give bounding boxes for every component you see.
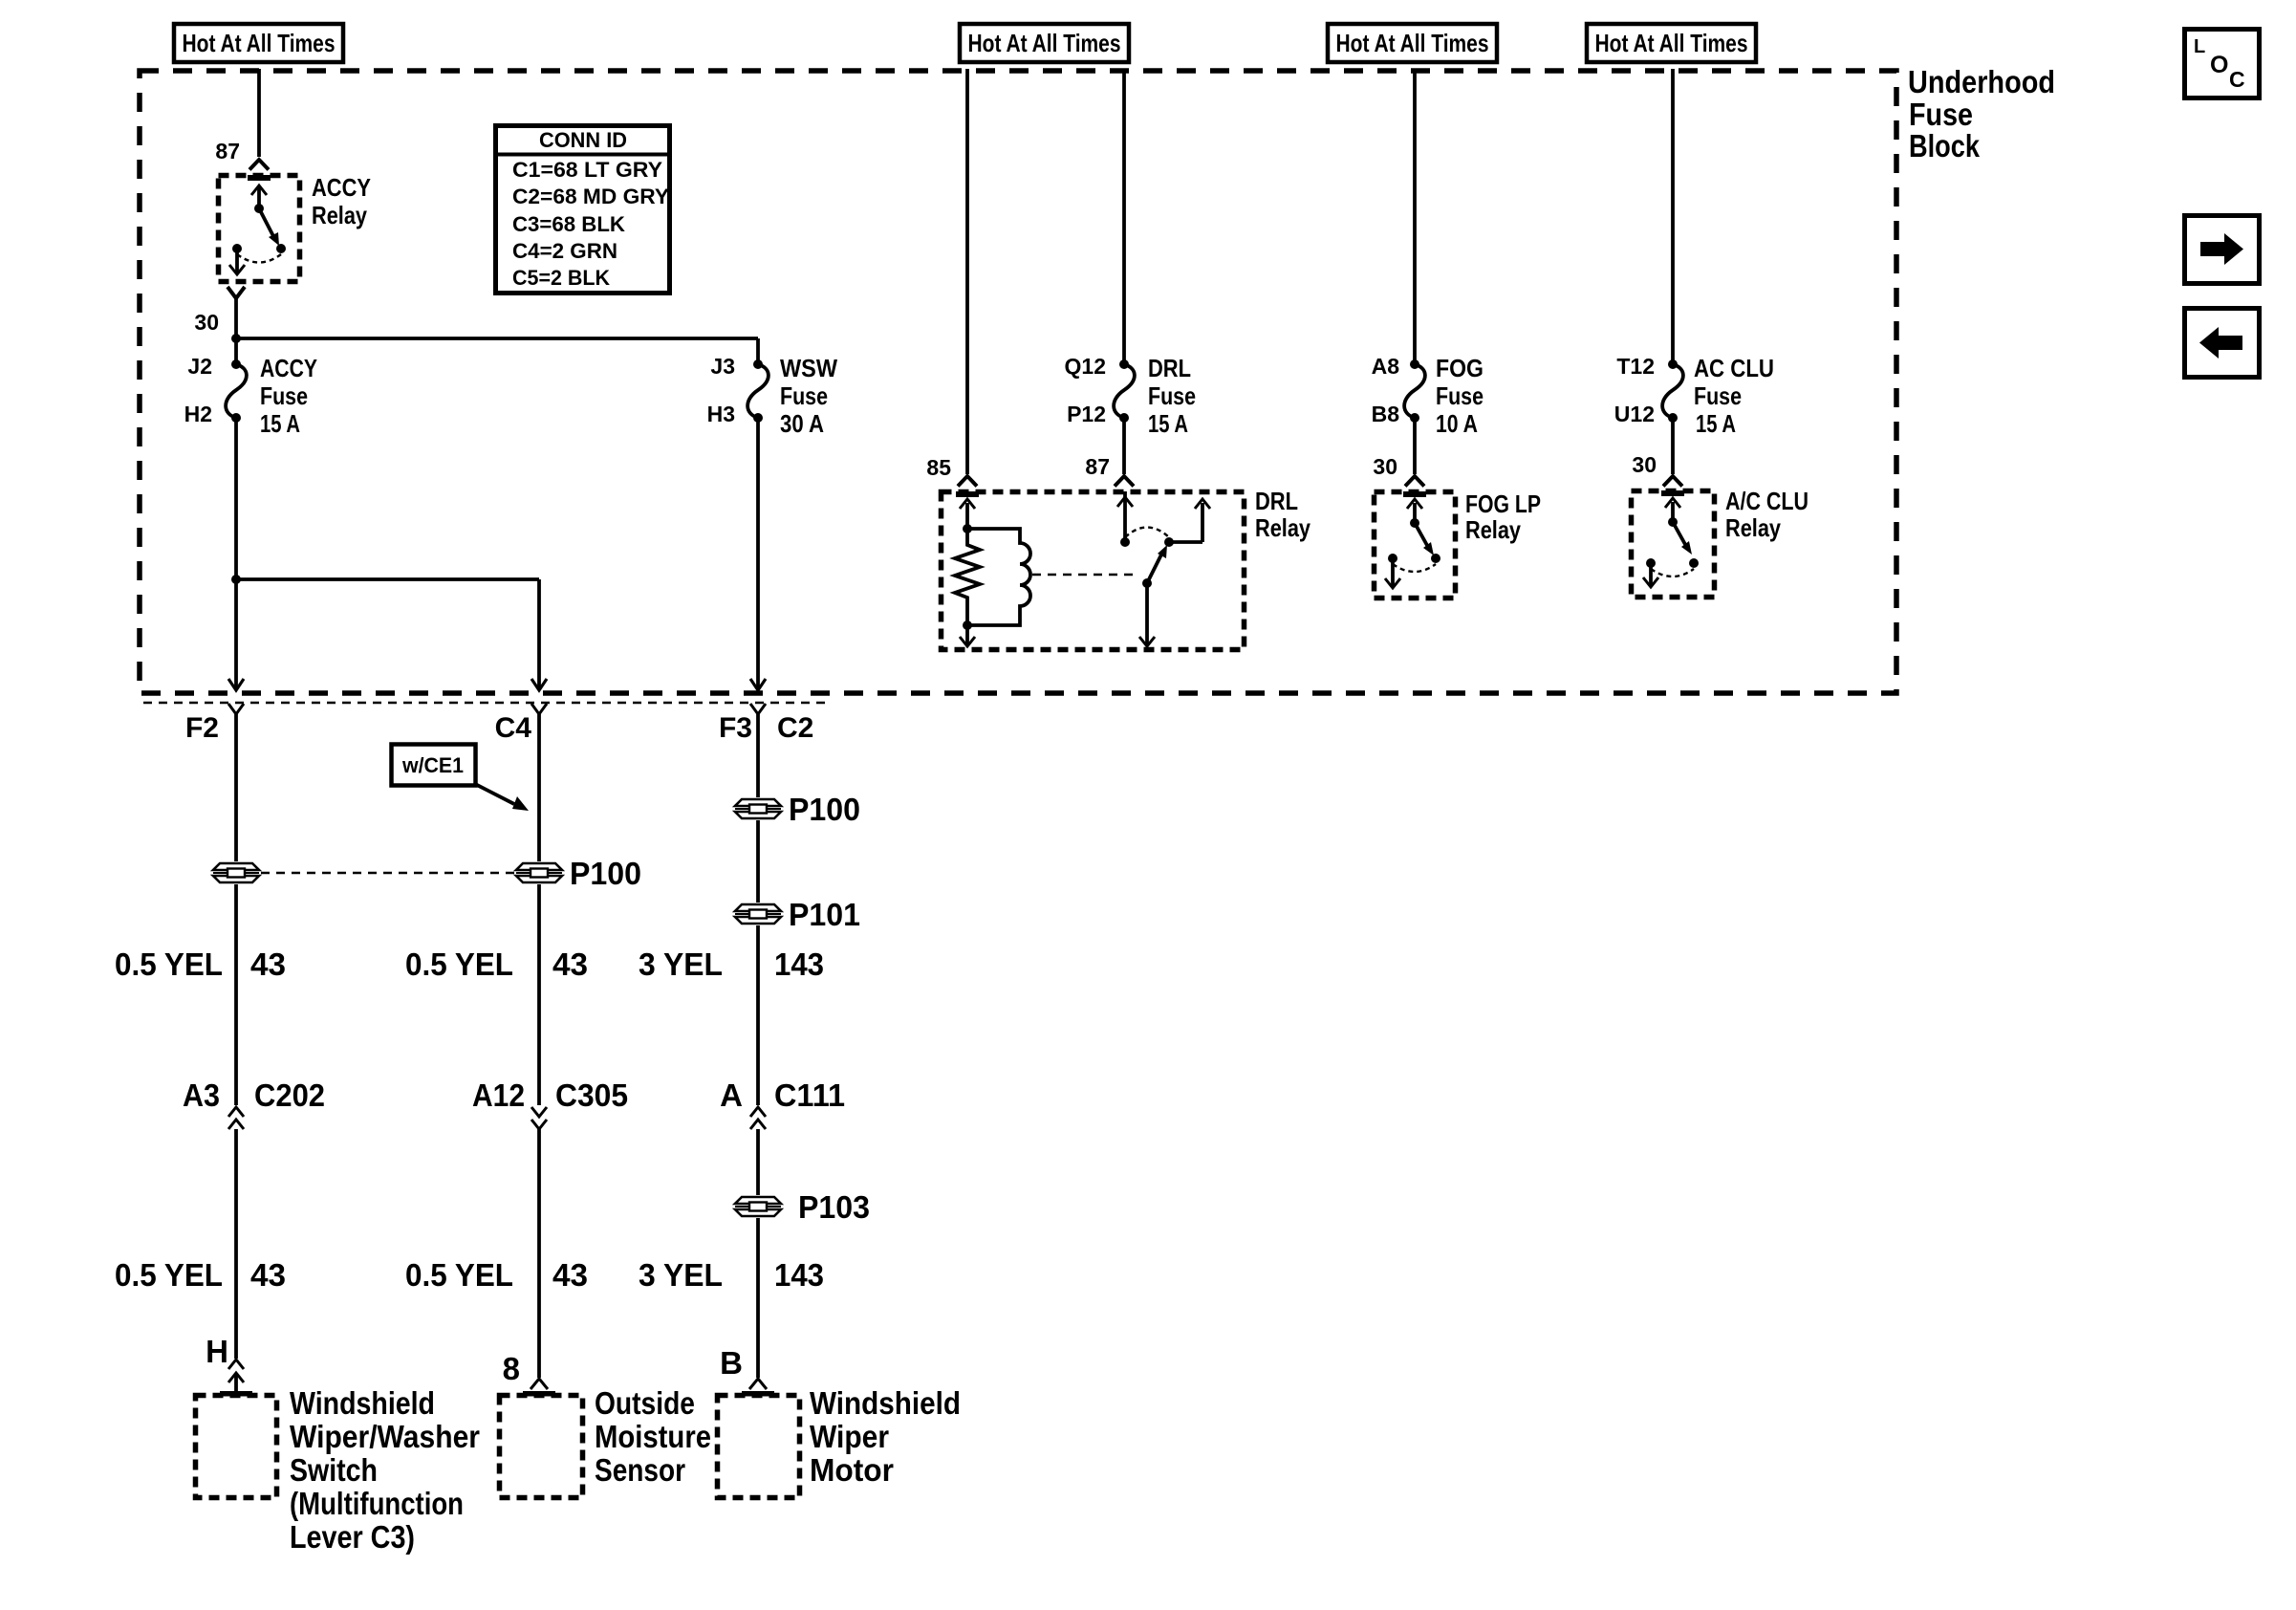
A/C CLU relay output contact and arrow (down) (1643, 558, 1658, 587)
in-line connector C202 (double chevron up) (228, 1107, 244, 1129)
svg-text:C3=68 BLK: C3=68 BLK (512, 212, 625, 236)
power label box: Hot At All Times (DRL feed) (960, 24, 1129, 62)
svg-text:30: 30 (1373, 454, 1397, 479)
svg-text:H2: H2 (184, 402, 212, 426)
A/C CLU relay pin 30 terminal bar (1661, 490, 1684, 496)
DRL Relay name label (1255, 487, 1310, 542)
A/C CLU Relay name label (1725, 487, 1809, 542)
pin label 30 (FOG) (1373, 454, 1397, 479)
relay ACCY dashed box (219, 176, 300, 282)
power label box: Hot At All Times (FOG feed) (1328, 24, 1497, 62)
arrowhead at F3 (750, 679, 766, 690)
windshield wiper/washer switch terminal bar (220, 1391, 252, 1397)
wire Hot At All Times to FOG fuse A8 (1413, 69, 1417, 364)
A/C CLU relay common arrow (up) (1665, 498, 1680, 527)
relay FOG LP dashed box (1375, 492, 1456, 598)
svg-text:B: B (720, 1345, 743, 1381)
svg-text:C4: C4 (495, 712, 532, 744)
svg-text:143: 143 (774, 946, 824, 982)
FOG LP relay contact dashed arc (1393, 564, 1436, 572)
svg-text:Fuse: Fuse (1436, 381, 1484, 410)
svg-text:10 A: 10 A (1436, 409, 1478, 438)
pin 85 chevron (958, 476, 977, 487)
Underhood Fuse Block dashed border (140, 71, 1896, 693)
svg-text:15 A: 15 A (1696, 409, 1736, 438)
svg-text:Windshield: Windshield (290, 1385, 435, 1421)
pin label P12 (1067, 402, 1106, 426)
pin label 87 (DRL) (1085, 454, 1110, 479)
svg-text:A/C CLU: A/C CLU (1725, 487, 1809, 515)
fuse AC CLU 15 A (T12/U12) (1662, 359, 1683, 423)
dashed tie P100 to P100 (261, 872, 514, 875)
pin label B8 (1372, 402, 1400, 426)
svg-text:Hot At All Times: Hot At All Times (183, 29, 336, 57)
FOG Fuse 10 A label (1436, 354, 1484, 438)
pin label J3 (710, 354, 735, 379)
ACCY relay contact dashed arc (237, 254, 281, 263)
pin label 87 (215, 139, 240, 163)
pin label 30 (194, 310, 219, 335)
pin label H3 (707, 402, 735, 426)
label F3 (719, 712, 752, 744)
svg-text:30 A: 30 A (780, 409, 824, 438)
pin 87 chevron (DRL) (1115, 476, 1134, 487)
DRL relay coil output arrow (down) (960, 620, 975, 646)
wire label 0.5 YEL 43 (upper left) (115, 946, 286, 982)
pass-through grommet P100 (right) (735, 799, 781, 818)
ACCY Fuse 15 A label (260, 354, 317, 438)
svg-text:Windshield: Windshield (810, 1385, 961, 1421)
power label box: Hot At All Times (AC CLU feed) (1587, 24, 1756, 62)
svg-text:H3: H3 (707, 402, 735, 426)
pin 8 connector chevron (531, 1379, 548, 1389)
node: junction of pin30 wire and WSW feed (231, 334, 241, 343)
svg-text:C1=68 LT GRY: C1=68 LT GRY (512, 158, 662, 182)
svg-text:Fuse: Fuse (260, 381, 308, 410)
relay A/C CLU dashed box (1632, 491, 1715, 598)
windshield wiper motor terminal bar (742, 1391, 774, 1397)
C4 connector chevron (531, 704, 547, 714)
wire C4 down to P100 (537, 714, 541, 861)
svg-text:Outside: Outside (595, 1385, 695, 1421)
wire P12 to DRL relay pin 87 (1122, 418, 1126, 474)
svg-text:Fuse: Fuse (1909, 97, 1973, 132)
svg-text:43: 43 (250, 1257, 286, 1293)
WSW Fuse 30 A label (780, 354, 837, 438)
svg-text:C5=2 BLK: C5=2 BLK (512, 266, 610, 290)
wire H3 down to F3 (756, 418, 760, 687)
svg-text:A8: A8 (1372, 354, 1400, 379)
Underhood Fuse Block label (1908, 64, 2055, 163)
svg-text:Relay: Relay (1255, 513, 1310, 542)
ACCY relay output contact and arrow (down) (229, 244, 245, 274)
fuse WSW 30 A (J3/H3) (747, 359, 769, 423)
svg-text:A: A (720, 1077, 743, 1113)
svg-text:CONN ID: CONN ID (539, 128, 627, 152)
relay DRL dashed box (942, 492, 1245, 650)
svg-text:C111: C111 (774, 1077, 845, 1113)
svg-text:8: 8 (503, 1351, 520, 1386)
pin label H (206, 1334, 228, 1369)
Outside Moisture Sensor label (595, 1385, 711, 1488)
svg-text:87: 87 (215, 139, 240, 163)
pin H connector (chevron + arrow) (228, 1360, 244, 1395)
node: junction to C4 branch (231, 575, 241, 584)
A/C CLU relay switch arm (1673, 522, 1699, 568)
label C2 (777, 712, 813, 744)
svg-text:A12: A12 (472, 1077, 525, 1113)
svg-text:Q12: Q12 (1065, 354, 1106, 379)
svg-text:ACCY: ACCY (260, 354, 317, 382)
svg-text:Fuse: Fuse (1148, 381, 1196, 410)
svg-text:C202: C202 (254, 1077, 325, 1113)
svg-text:0.5 YEL: 0.5 YEL (115, 1257, 223, 1293)
svg-text:30: 30 (194, 310, 219, 335)
pin label H2 (184, 402, 212, 426)
wire P100 to C202 (234, 884, 238, 1105)
outside moisture sensor terminal bar (523, 1391, 555, 1397)
svg-text:C305: C305 (555, 1077, 628, 1113)
arrowhead at F2 (228, 679, 244, 690)
wire B8 to FOG LP relay pin 30 (1413, 418, 1417, 474)
wire 85 feed from border to DRL relay (965, 69, 969, 474)
svg-text:85: 85 (926, 455, 951, 480)
svg-text:3 YEL: 3 YEL (639, 1257, 723, 1293)
pass-through grommet P100 (left) (213, 863, 259, 882)
wire C111 to P103 (756, 1129, 760, 1195)
svg-text:0.5 YEL: 0.5 YEL (405, 946, 513, 982)
wire Hot At All Times to AC CLU fuse T12 (1671, 69, 1675, 364)
w/CE1 callout box (392, 745, 476, 786)
wire from Hot At All Times to ACCY relay pin 87 (257, 69, 261, 157)
svg-text:Motor: Motor (810, 1452, 894, 1488)
in-line connector C111 (double chevron up) (750, 1107, 766, 1129)
ACCY relay switch arm (259, 208, 286, 253)
FOG LP relay switch arm (1415, 523, 1440, 563)
DRL relay pin 85 terminal bar (956, 491, 979, 497)
arrowhead at C4 (531, 679, 547, 690)
pin 30 chevron below ACCY relay (227, 287, 245, 298)
DRL Fuse 15 A label (1148, 354, 1196, 438)
pin label B (720, 1345, 743, 1381)
svg-text:P103: P103 (798, 1189, 870, 1225)
label P100 (middle) (570, 856, 641, 891)
A/C CLU relay contact dashed arc (1651, 569, 1694, 577)
forward navigation arrow box (2185, 216, 2260, 284)
svg-text:Switch: Switch (290, 1452, 378, 1488)
svg-text:C4=2 GRN: C4=2 GRN (512, 239, 617, 263)
label P100 (right) (789, 792, 860, 827)
power label box: Hot At All Times (ACCY feed) (174, 24, 343, 62)
LOC legend box (2185, 30, 2260, 98)
DRL relay switch arm (1142, 537, 1174, 588)
wire P101 to C111 (756, 925, 760, 1105)
svg-text:43: 43 (552, 946, 588, 982)
svg-text:FOG: FOG (1436, 354, 1484, 382)
svg-text:Moisture: Moisture (595, 1419, 711, 1454)
svg-text:3 YEL: 3 YEL (639, 946, 723, 982)
pin label Q12 (1065, 354, 1106, 379)
pin B connector chevron (749, 1379, 767, 1389)
svg-text:Wiper: Wiper (810, 1419, 889, 1454)
Windshield Wiper Motor label (810, 1385, 961, 1488)
pin label 30 (AC) (1632, 452, 1657, 477)
DRL relay common output arrow (down) (1139, 583, 1155, 646)
svg-text:Underhood: Underhood (1908, 64, 2055, 99)
svg-text:L: L (2194, 36, 2205, 57)
coil L1 (DRL relay) (967, 529, 1030, 625)
wire pin 30 to ACCY fuse J2 (234, 298, 238, 364)
svg-text:Relay: Relay (1465, 515, 1521, 544)
dashed actuation link coil to switch (1032, 574, 1139, 577)
svg-text:P101: P101 (789, 897, 860, 932)
svg-text:C: C (2229, 67, 2245, 92)
label A3 C202 (183, 1077, 325, 1113)
svg-text:H: H (206, 1334, 228, 1369)
wire U12 to AC CLU relay pin 30 (1671, 418, 1675, 474)
wire P100 to P101 (756, 820, 760, 903)
F2 connector chevron (228, 704, 244, 714)
svg-text:C2: C2 (777, 712, 813, 744)
svg-text:DRL: DRL (1255, 487, 1298, 515)
svg-text:15 A: 15 A (260, 409, 300, 438)
ACCY Relay name label (312, 173, 371, 229)
pin label T12 (1616, 354, 1655, 379)
label A12 C305 (472, 1077, 628, 1113)
svg-text:Fuse: Fuse (780, 381, 828, 410)
connector interface dashed line (F2/C4/F3 row) (143, 702, 832, 705)
pin label 8 (503, 1351, 520, 1386)
svg-text:C2=68 MD GRY: C2=68 MD GRY (512, 185, 669, 208)
svg-text:w/CE1: w/CE1 (401, 753, 464, 777)
pin label U12 (1614, 402, 1655, 426)
svg-text:0.5 YEL: 0.5 YEL (405, 1257, 513, 1293)
svg-text:O: O (2210, 52, 2228, 78)
component box: Outside Moisture Sensor (500, 1396, 583, 1498)
svg-text:87: 87 (1085, 454, 1110, 479)
wire P103 to motor pin B (756, 1218, 760, 1378)
svg-text:Hot At All Times: Hot At All Times (1595, 29, 1748, 57)
svg-text:Hot At All Times: Hot At All Times (968, 29, 1121, 57)
Windshield Wiper/Washer Switch label (290, 1385, 480, 1555)
svg-text:43: 43 (250, 946, 286, 982)
svg-text:Sensor: Sensor (595, 1452, 685, 1488)
DRL relay coil input arrow (up) (960, 499, 975, 533)
wire label 0.5 YEL 43 (lower left) (115, 1257, 286, 1293)
w/CE1 pointer arrow (475, 784, 529, 811)
DRL relay contact dashed arc (1125, 528, 1169, 538)
fuse DRL 15 A (Q12/P12) (1114, 359, 1135, 423)
svg-text:T12: T12 (1616, 354, 1655, 379)
svg-text:B8: B8 (1372, 402, 1400, 426)
component box: Windshield Wiper Motor (718, 1396, 800, 1498)
resistor (DRL relay) (955, 529, 980, 625)
svg-text:U12: U12 (1614, 402, 1655, 426)
in-line connector C305 (double chevron down) (531, 1107, 547, 1129)
pin 30 chevron (FOG) (1405, 476, 1424, 487)
svg-text:DRL: DRL (1148, 354, 1191, 382)
wire label 3 YEL 143 (upper) (639, 946, 824, 982)
wire label 3 YEL 143 (lower) (639, 1257, 824, 1293)
svg-text:ACCY: ACCY (312, 173, 371, 202)
ACCY relay pin 87 terminal bar (248, 175, 271, 181)
svg-text:J2: J2 (187, 354, 212, 379)
F3 connector chevron (750, 704, 766, 714)
svg-text:Relay: Relay (312, 201, 367, 229)
svg-text:WSW: WSW (780, 354, 837, 382)
FOG LP relay output contact and arrow (down) (1385, 554, 1400, 588)
wire junction to WSW fuse J3 (236, 338, 758, 364)
svg-text:Relay: Relay (1725, 513, 1781, 542)
svg-text:(Multifunction: (Multifunction (290, 1486, 464, 1521)
wire C202 to switch pin H (234, 1129, 238, 1359)
wire P100 to C305 (537, 884, 541, 1105)
pass-through grommet P101 (735, 904, 781, 924)
wire label 0.5 YEL 43 (lower middle) (405, 1257, 588, 1293)
pin 30 chevron (AC) (1663, 476, 1682, 487)
FOG LP Relay name label (1465, 490, 1541, 544)
svg-text:FOG LP: FOG LP (1465, 490, 1541, 518)
svg-text:Wiper/Washer: Wiper/Washer (290, 1419, 480, 1454)
svg-text:F3: F3 (719, 712, 752, 744)
wire Hot At All Times to DRL fuse Q12 (1122, 69, 1126, 364)
wire label 0.5 YEL 43 (middle) (405, 946, 588, 982)
wire F3 down to P100 (756, 714, 760, 797)
svg-text:F2: F2 (185, 712, 219, 744)
label C4 (495, 712, 532, 744)
wire junction to C4 drop (236, 579, 539, 687)
svg-text:Hot At All Times: Hot At All Times (1336, 29, 1489, 57)
FOG LP relay pin 30 terminal bar (1403, 491, 1426, 497)
AC CLU Fuse 15 A label (1694, 354, 1774, 438)
FOG LP relay common arrow (up) (1407, 499, 1422, 528)
pin label 85 (926, 455, 951, 480)
pass-through grommet P103 (735, 1197, 781, 1216)
CONN ID legend table (495, 126, 670, 294)
label P103 (798, 1189, 870, 1225)
svg-text:J3: J3 (710, 354, 735, 379)
svg-text:Block: Block (1909, 128, 1981, 163)
label A C111 (720, 1077, 845, 1113)
fuse FOG 10 A (A8/B8) (1404, 359, 1425, 423)
ACCY relay common arrow (up) (251, 185, 267, 213)
svg-text:AC CLU: AC CLU (1694, 354, 1774, 382)
svg-text:P100: P100 (789, 792, 860, 827)
label F2 (185, 712, 219, 744)
pin 87 chevron (249, 160, 269, 170)
label P101 (789, 897, 860, 932)
svg-text:43: 43 (552, 1257, 588, 1293)
svg-text:Fuse: Fuse (1694, 381, 1742, 410)
wire H2 down to F2 (234, 418, 238, 687)
wire C305 to sensor pin 8 (537, 1129, 541, 1378)
svg-text:A3: A3 (183, 1077, 220, 1113)
svg-text:30: 30 (1632, 452, 1657, 477)
pass-through grommet P100 (middle) (516, 863, 562, 882)
DRL relay pin 87 input arrow (up) (1117, 491, 1133, 547)
svg-text:P12: P12 (1067, 402, 1106, 426)
pin label J2 (187, 354, 212, 379)
wire F2 down to P100 (234, 714, 238, 861)
back navigation arrow box (2185, 309, 2260, 378)
fuse ACCY 15 A (J2/H2) (226, 359, 247, 423)
component box: Windshield Wiper/Washer Switch (196, 1396, 277, 1498)
pin label A8 (1372, 354, 1400, 379)
svg-text:Lever C3): Lever C3) (290, 1519, 415, 1555)
svg-text:15 A: 15 A (1148, 409, 1188, 438)
DRL relay NO contact to output arrow (up) (1169, 499, 1210, 542)
svg-text:P100: P100 (570, 856, 641, 891)
svg-text:143: 143 (774, 1257, 824, 1293)
svg-text:0.5 YEL: 0.5 YEL (115, 946, 223, 982)
